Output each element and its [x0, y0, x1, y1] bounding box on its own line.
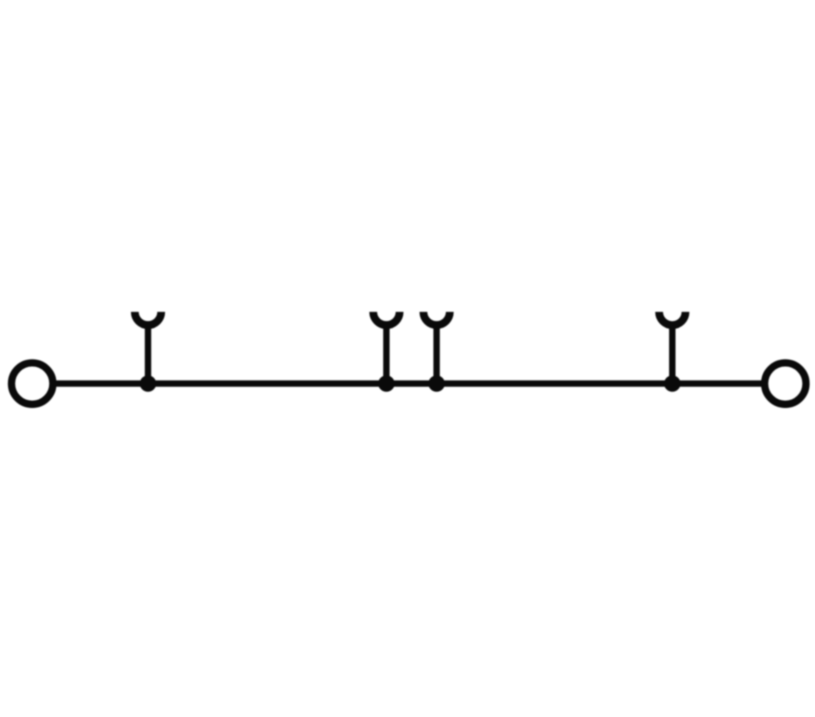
socket cup 2 — [373, 312, 399, 325]
socket cup 1 — [135, 312, 161, 325]
node junction 2 — [378, 375, 394, 391]
wire tap branch 4 — [669, 322, 675, 384]
socket cup 4 — [659, 312, 685, 325]
terminal circle left (conductor entry 1) — [12, 363, 53, 404]
node junction 1 — [140, 375, 156, 391]
node junction 4 — [664, 375, 680, 391]
wire tap branch 3 — [433, 322, 439, 384]
terminal circle right (conductor entry 2) — [765, 363, 806, 404]
node junction 3 — [428, 375, 444, 391]
wire main bus — [55, 380, 761, 386]
wire tap branch 2 — [383, 322, 389, 384]
wire tap branch 1 — [145, 322, 151, 384]
socket cup 3 — [423, 312, 449, 325]
